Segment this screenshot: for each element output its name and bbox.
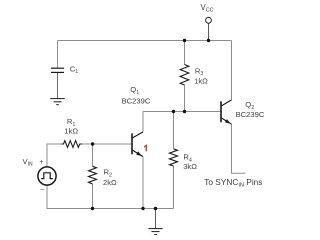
node R1/R2/Q1 base [91,142,94,145]
node Q1 emitter/bottom rail [141,207,144,210]
node R3/top rail [183,39,186,42]
wire Q2 collector riser [231,41,233,100]
Vcc terminal circle [206,17,212,23]
svg-text:To SYNCIN Pins: To SYNCIN Pins [204,177,262,189]
svg-text:VCC: VCC [201,3,214,14]
svg-text:R3: R3 [195,66,203,77]
node Vcc/top rail [207,39,210,42]
svg-text:3kΩ: 3kΩ [183,162,197,171]
wire left drop to C1 [57,41,59,69]
wire R4 top lead [173,112,175,149]
svg-text:Q1: Q1 [130,85,139,96]
svg-text:1kΩ: 1kΩ [64,127,78,136]
wire Vin bottom and bottom rail [47,185,174,209]
svg-text:–: – [40,186,44,193]
wire mid node to Q2 base [143,111,221,113]
transistor Q1 [132,132,143,157]
svg-text:1kΩ: 1kΩ [194,77,208,86]
wire Vin top to R1 [47,144,62,167]
svg-text:R2: R2 [104,168,112,179]
svg-text:BC239C: BC239C [236,110,265,119]
node ground tap/bottom rail [154,207,157,210]
node R4/mid wire [172,110,175,113]
wire R4 bottom lead [173,166,175,209]
resistor R4 [170,149,178,166]
wire R2 top lead [92,144,94,166]
source Vin circle [38,167,56,185]
wire R1 right to Q1 base [82,143,131,145]
svg-text:2kΩ: 2kΩ [103,178,117,187]
svg-text:C1: C1 [70,64,78,75]
wire Q1 collector riser [142,112,144,132]
wire top rail [58,40,232,42]
resistor R3 [180,65,189,86]
wire C1 to ground G1 [57,72,59,98]
svg-text:+: + [39,159,43,166]
wire ground tap G2 [155,209,157,229]
ground (left, under C1) [50,99,65,105]
resistor R2 [89,166,97,184]
source Vin pulse symbol [41,173,53,179]
wire R3 bottom lead [184,85,186,112]
node R2/bottom rail [91,207,94,210]
transistor Q2 [221,100,232,124]
wire Q1 emitter drop [142,157,144,209]
wire R2 bottom lead [92,184,94,209]
svg-text:BC239C: BC239C [122,97,151,106]
node R3/mid wire [183,110,186,113]
svg-text:VIN: VIN [23,157,33,168]
pin number 1 (Q1 emitter) [144,145,147,152]
wire Q2 emitter to SYNC stub [232,124,246,173]
wire R3 top lead [184,41,186,65]
resistor R1 [62,141,83,148]
wire Vcc stub [208,23,210,40]
ground (bottom center) [148,229,162,235]
capacitor C1 [51,68,64,72]
